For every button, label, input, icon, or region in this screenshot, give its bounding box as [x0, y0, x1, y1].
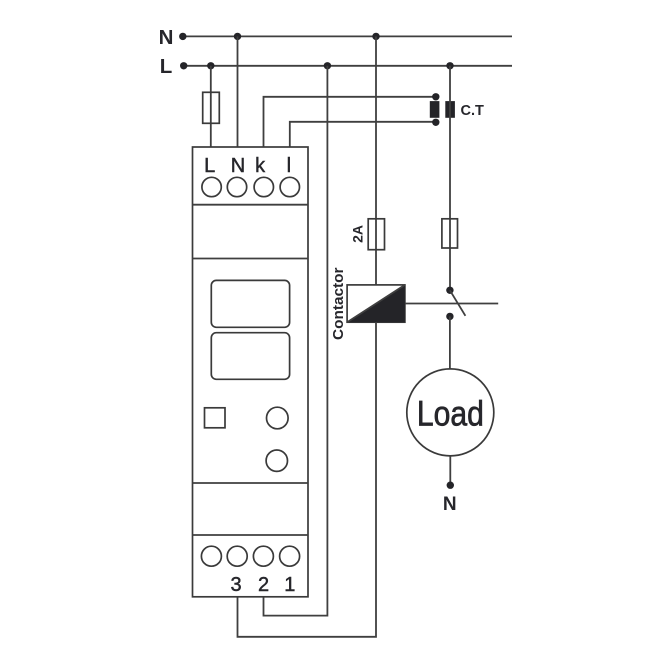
- current transformer C.T primary bar: [445, 101, 455, 118]
- meter display window lower: [211, 333, 289, 380]
- svg-text:L: L: [204, 155, 215, 177]
- meter lower divider: [193, 482, 309, 484]
- wire L bus through CT primary to switch upper contact: [449, 66, 451, 290]
- terminal k circle: [254, 177, 273, 196]
- contactor coil K1: [347, 285, 405, 322]
- svg-text:Contactor: Contactor: [330, 267, 347, 340]
- meter indicator circle upper: [267, 407, 289, 429]
- svg-text:Load: Load: [417, 394, 484, 433]
- junction dot L bus to fuse F1: [207, 62, 214, 69]
- meter indicator circle lower: [266, 450, 287, 471]
- bottom terminal circle unlabeled: [201, 546, 221, 566]
- svg-text:2A: 2A: [350, 225, 366, 243]
- terminal 2 circle: [253, 546, 273, 566]
- fuse F1: [203, 92, 220, 123]
- meter display window upper: [211, 280, 289, 327]
- junction dot L bus to terminal-2 riser: [324, 62, 331, 69]
- wire L bus: [184, 65, 512, 67]
- svg-text:L: L: [160, 55, 173, 78]
- svg-text:C.T: C.T: [461, 103, 485, 119]
- load circle: [407, 369, 494, 456]
- meter display bezel top divider: [193, 258, 309, 260]
- svg-text:k: k: [255, 155, 266, 177]
- junction dot N bus to meter terminal N: [234, 33, 241, 40]
- junction dot CT secondary bottom: [432, 119, 439, 126]
- junction dot L bus left end: [180, 62, 187, 69]
- current transformer C.T secondary bar: [430, 101, 440, 118]
- terminal N circle: [227, 177, 246, 196]
- wire contactor coil to meter terminal 3: [238, 322, 377, 637]
- node N return dot: [447, 482, 454, 489]
- wire meter terminal 2 to L bus riser: [264, 66, 328, 616]
- terminal l circle: [280, 177, 299, 196]
- svg-text:l: l: [287, 155, 291, 177]
- svg-text:N: N: [443, 494, 457, 515]
- switch lower contact dot: [446, 313, 453, 320]
- meter bottom terminal block divider: [193, 534, 309, 536]
- meter button: [205, 408, 226, 428]
- terminal 1 circle: [280, 546, 300, 566]
- meter top terminal block divider: [193, 204, 309, 206]
- svg-text:3: 3: [230, 574, 241, 596]
- wire N bus to meter terminal N: [237, 36, 239, 147]
- junction dot CT secondary top: [432, 93, 439, 100]
- terminal 3 circle: [227, 546, 247, 566]
- wire switch to load: [449, 316, 451, 369]
- wire load to N return: [449, 456, 451, 485]
- junction dot N bus to 2A fuse branch: [372, 33, 379, 40]
- fuse F2 load branch: [442, 219, 458, 248]
- switch upper contact dot: [446, 287, 453, 294]
- svg-text:1: 1: [284, 574, 295, 596]
- svg-text:N: N: [159, 26, 174, 49]
- wire N bus: [183, 35, 512, 37]
- terminal L circle: [202, 177, 221, 196]
- fuse 2A: [368, 219, 384, 250]
- svg-text:2: 2: [258, 574, 269, 596]
- wire meter terminal l to CT secondary: [290, 122, 436, 147]
- wire meter terminal k to CT secondary: [264, 97, 436, 147]
- energy meter outline: [193, 147, 309, 597]
- junction dot L bus to CT primary branch: [446, 62, 453, 69]
- wire N bus to contactor coil via 2A fuse: [375, 36, 377, 285]
- junction dot N bus left end: [179, 33, 186, 40]
- svg-text:N: N: [231, 155, 245, 177]
- wire L bus to meter terminal L: [210, 66, 212, 147]
- wire contactor linkage to switch: [405, 303, 498, 305]
- switch blade: [450, 290, 466, 316]
